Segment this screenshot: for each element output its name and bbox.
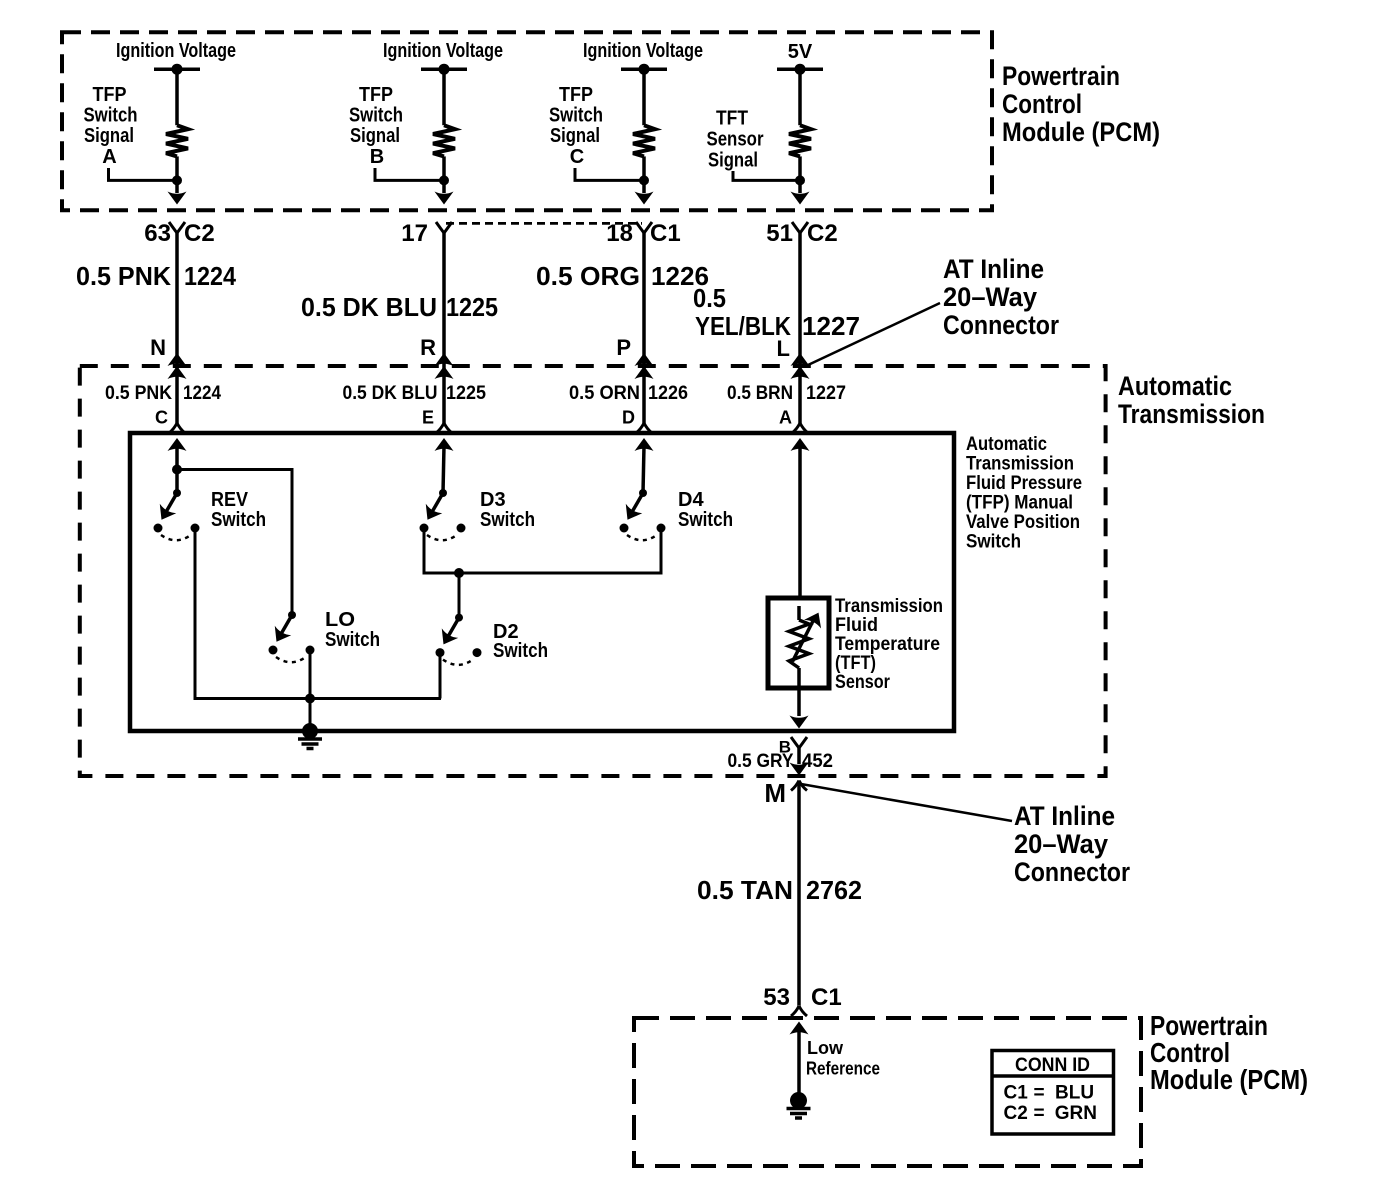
svg-text:2762: 2762: [806, 875, 862, 905]
svg-text:REV: REV: [211, 489, 249, 511]
wire with arrow to pin 51: [798, 180, 802, 193]
wire: [175, 156, 179, 180]
svg-text:Module (PCM): Module (PCM): [1002, 117, 1160, 147]
svg-text:B: B: [370, 146, 384, 168]
svg-text:20–Way: 20–Way: [1014, 829, 1108, 859]
svg-text:Switch: Switch: [966, 532, 1021, 553]
svg-text:1224: 1224: [184, 261, 236, 291]
label: Automatic Transmission Fluid Pressure (TFP) Manual Valve Position Switch: [966, 434, 1082, 553]
D2 switch: [435, 614, 481, 665]
svg-text:LO: LO: [325, 609, 355, 631]
svg-text:Signal: Signal: [708, 150, 758, 172]
svg-text:Switch: Switch: [84, 105, 138, 127]
svg-text:L: L: [777, 336, 790, 361]
svg-text:17: 17: [401, 220, 428, 247]
svg-text:1227: 1227: [802, 311, 860, 341]
svg-text:18: 18: [606, 220, 633, 247]
wire: low reference: [797, 1029, 801, 1095]
svg-text:Signal: Signal: [350, 125, 400, 147]
CONN ID table: [992, 1051, 1114, 1135]
svg-text:Fluid: Fluid: [835, 615, 878, 636]
svg-text:0.5 PNK: 0.5 PNK: [76, 261, 171, 291]
svg-text:C: C: [155, 408, 168, 428]
Powertrain Control Module (PCM) bottom box: [634, 1018, 1141, 1166]
pin 17 connector: [436, 222, 452, 233]
node A junction: [172, 175, 182, 185]
svg-text:0.5 ORG: 0.5 ORG: [536, 261, 640, 291]
svg-text:452: 452: [802, 751, 833, 772]
label: Powertrain Control Module (PCM) top: [1002, 61, 1160, 147]
svg-text:(TFT): (TFT): [835, 653, 876, 674]
REV switch: [153, 489, 199, 540]
entry arrow D: [635, 438, 654, 451]
svg-text:TFP: TFP: [93, 84, 127, 106]
TFP manual valve position switch box: [130, 433, 954, 731]
svg-text:Transmission: Transmission: [1118, 399, 1265, 429]
svg-text:Switch: Switch: [493, 640, 548, 662]
svg-text:A: A: [779, 408, 792, 428]
node: junction to D2: [454, 568, 464, 578]
node TFT junction: [795, 175, 805, 185]
resistor (TFP switch signal B pull-up): [433, 125, 455, 156]
label: Automatic Transmission: [1118, 371, 1265, 429]
wire 1227 PCM side: [798, 232, 802, 423]
svg-text:Temperature: Temperature: [835, 634, 940, 655]
LO switch: [268, 611, 314, 662]
wire: [642, 69, 646, 125]
wire: signal A hook: [109, 168, 178, 180]
wire: [175, 69, 179, 125]
svg-text:Switch: Switch: [349, 105, 403, 127]
svg-text:53: 53: [763, 984, 790, 1011]
wire 1224 PCM side: [175, 232, 179, 423]
resistor (TFP switch signal C pull-up): [633, 125, 655, 156]
wire 1226 PCM side: [642, 232, 646, 423]
svg-text:1226: 1226: [648, 383, 688, 404]
svg-text:E: E: [422, 408, 434, 428]
resistor (TFT sensor signal pull-up): [789, 125, 811, 156]
svg-text:Valve Position: Valve Position: [966, 512, 1080, 533]
svg-text:1225: 1225: [446, 383, 486, 404]
svg-text:Reference: Reference: [806, 1059, 880, 1079]
svg-text:Switch: Switch: [480, 509, 535, 531]
svg-text:Transmission: Transmission: [835, 596, 943, 617]
svg-text:20–Way: 20–Way: [943, 282, 1037, 312]
svg-text:CONN ID: CONN ID: [1015, 1055, 1090, 1076]
svg-text:C: C: [570, 146, 584, 168]
ground (switch box case): [302, 723, 318, 739]
wire: TFT signal hook: [733, 171, 800, 180]
svg-text:AT Inline: AT Inline: [1014, 801, 1115, 831]
Powertrain Control Module (PCM) top box: [62, 32, 992, 210]
svg-text:M: M: [764, 778, 786, 808]
svg-text:Connector: Connector: [943, 310, 1059, 340]
wire: down to D2 pivot: [458, 573, 461, 618]
wire 2762: [797, 781, 801, 1006]
svg-text:P: P: [616, 335, 631, 360]
svg-text:5V: 5V: [788, 41, 813, 63]
svg-text:Automatic: Automatic: [1118, 371, 1232, 401]
svg-text:1224: 1224: [183, 383, 221, 404]
svg-text:AT Inline: AT Inline: [943, 254, 1044, 284]
svg-text:0.5: 0.5: [693, 283, 726, 313]
wire: REV contact to ground bus: [195, 528, 441, 699]
svg-text:Ignition Voltage: Ignition Voltage: [116, 40, 236, 62]
svg-text:0.5 ORN: 0.5 ORN: [569, 383, 640, 404]
wire: [442, 156, 446, 180]
node: bus junction: [305, 694, 315, 704]
pin 51 C2 connector: [792, 222, 808, 233]
svg-text:C1: C1: [650, 220, 681, 247]
leader line: AT Inline 20-Way Connector (upper): [808, 303, 940, 365]
wire with arrow to pin 63: [175, 180, 179, 193]
svg-text:Sensor: Sensor: [707, 129, 764, 151]
svg-text:0.5 GRY: 0.5 GRY: [728, 751, 794, 772]
svg-text:N: N: [150, 335, 166, 360]
svg-text:=: =: [1034, 1083, 1045, 1104]
svg-text:0.5 TAN: 0.5 TAN: [697, 875, 793, 905]
svg-text:=: =: [1034, 1103, 1045, 1124]
svg-text:Switch: Switch: [549, 105, 603, 127]
svg-text:Module (PCM): Module (PCM): [1150, 1064, 1308, 1095]
svg-text:63: 63: [144, 220, 171, 247]
wire: [798, 156, 802, 180]
svg-text:0.5 PNK: 0.5 PNK: [105, 383, 172, 404]
svg-text:Connector: Connector: [1014, 857, 1130, 887]
node: junction to LO branch: [172, 465, 182, 475]
wire: TFT to pin B with arrow: [797, 688, 801, 716]
svg-text:C2: C2: [1004, 1103, 1028, 1124]
wire: branch to LO switch: [177, 470, 292, 616]
pin 18 C1 connector: [636, 222, 652, 233]
svg-text:D4: D4: [678, 489, 704, 511]
wire: D2 left contact to bus: [439, 653, 442, 699]
wire: D3 left contact down and across to D4 right contact: [424, 528, 661, 573]
entry arrow pin 53: [790, 1022, 809, 1035]
svg-text:0.5 DK BLU: 0.5 DK BLU: [343, 383, 438, 404]
svg-text:D: D: [622, 408, 635, 428]
svg-text:Automatic: Automatic: [966, 434, 1047, 455]
node B terminal: [791, 737, 807, 748]
svg-text:C2: C2: [184, 220, 215, 247]
svg-text:Signal: Signal: [84, 125, 134, 147]
svg-text:D3: D3: [480, 489, 506, 511]
label: AT Inline 20-Way Connector (upper): [943, 254, 1059, 340]
label: Powertrain Control Module (PCM) bottom: [1150, 1010, 1308, 1095]
svg-text:Switch: Switch: [211, 509, 266, 531]
D3 switch: [419, 489, 465, 540]
svg-text:TFP: TFP: [359, 84, 393, 106]
D4 switch: [619, 489, 665, 540]
label: TFP Switch Signal A: [84, 84, 138, 168]
wire with arrow to pin 17: [442, 180, 446, 193]
ground (PCM low reference): [790, 1092, 807, 1109]
svg-text:1227: 1227: [806, 383, 846, 404]
resistor (TFP switch signal A pull-up): [166, 125, 188, 156]
label: Transmission Fluid Temperature (TFT) Sensor: [835, 596, 943, 693]
svg-text:Sensor: Sensor: [835, 672, 891, 693]
svg-text:C2: C2: [807, 220, 838, 247]
svg-text:C1: C1: [811, 984, 842, 1011]
svg-text:Low: Low: [807, 1038, 844, 1058]
svg-text:R: R: [420, 335, 436, 360]
connector C1 boundary dashed line: [446, 222, 642, 225]
wire: [642, 156, 646, 180]
wire 1225 PCM side: [442, 232, 446, 423]
svg-text:Powertrain: Powertrain: [1002, 61, 1120, 91]
svg-text:0.5 DK BLU: 0.5 DK BLU: [301, 292, 437, 322]
wire: signal B hook: [375, 168, 444, 180]
svg-text:Ignition Voltage: Ignition Voltage: [583, 40, 703, 62]
label: TFP Switch Signal B: [349, 84, 403, 168]
wire: [798, 69, 802, 125]
wire: signal C hook: [575, 168, 644, 180]
wire: LO contact down to ground: [309, 650, 312, 731]
svg-text:Switch: Switch: [678, 509, 733, 531]
svg-text:51: 51: [766, 220, 793, 247]
svg-text:Control: Control: [1002, 89, 1082, 119]
wire with arrow to pin 18: [642, 180, 646, 193]
label: AT Inline 20-Way Connector (lower): [1014, 801, 1130, 887]
Automatic Transmission dashed box: [80, 366, 1106, 776]
svg-text:1225: 1225: [446, 292, 498, 322]
TFT sensor (thermistor): [768, 598, 829, 688]
svg-text:BLU: BLU: [1055, 1083, 1094, 1104]
label: TFP Switch Signal C: [549, 84, 603, 168]
entry arrow A: [791, 438, 810, 451]
svg-text:Fluid Pressure: Fluid Pressure: [966, 473, 1082, 494]
node B junction: [439, 175, 449, 185]
svg-text:GRN: GRN: [1055, 1103, 1097, 1124]
svg-text:Transmission: Transmission: [966, 454, 1074, 475]
node C junction: [639, 175, 649, 185]
wire: [442, 69, 446, 125]
svg-text:Ignition Voltage: Ignition Voltage: [383, 40, 503, 62]
svg-text:C1: C1: [1004, 1083, 1029, 1104]
entry arrow C: [168, 438, 187, 451]
svg-text:Switch: Switch: [325, 629, 380, 651]
label: TFT Sensor Signal: [707, 108, 764, 172]
entry arrow E: [435, 438, 454, 451]
svg-text:TFT: TFT: [716, 108, 748, 130]
wire with arrow at AT box edge: [797, 747, 801, 764]
PIN ROW: pin 63 C2 connector: [169, 222, 185, 233]
svg-text:(TFP) Manual: (TFP) Manual: [966, 493, 1073, 514]
svg-text:Signal: Signal: [550, 125, 600, 147]
leader line: AT Inline 20-Way Connector (lower): [801, 784, 1012, 821]
svg-text:0.5 BRN: 0.5 BRN: [727, 383, 793, 404]
svg-text:A: A: [102, 146, 116, 168]
svg-text:TFP: TFP: [559, 84, 593, 106]
